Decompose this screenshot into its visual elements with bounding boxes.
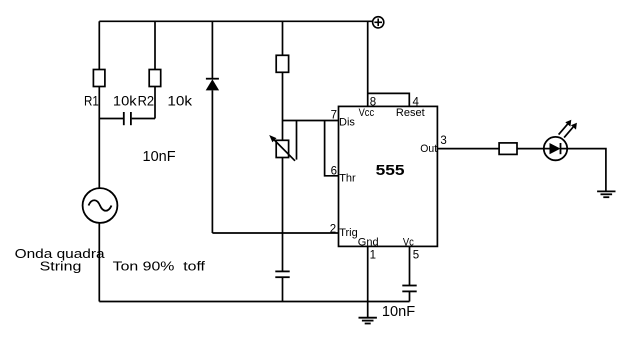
wire pin 4 Reset	[368, 93, 410, 106]
svg-text:5: 5	[413, 250, 419, 262]
wire thr net	[325, 121, 339, 176]
LED D2	[544, 137, 567, 160]
wire pin 3 Out	[437, 148, 499, 150]
svg-text:8: 8	[370, 96, 376, 108]
wire pot bottom	[282, 158, 284, 272]
svg-text:R1: R1	[84, 92, 99, 108]
wire pot wiper	[296, 121, 298, 160]
capacitor C3 10nF	[402, 286, 416, 302]
svg-text:String: String	[40, 260, 82, 274]
wire R2 bottom	[154, 87, 156, 119]
diode D1	[206, 79, 219, 91]
resistor R1	[93, 70, 105, 87]
resistor R2	[149, 70, 161, 87]
wire R4 top	[282, 21, 284, 55]
wire pin 8 Vcc	[367, 21, 369, 106]
wire R4 bottom	[282, 72, 284, 140]
svg-text:555: 555	[376, 162, 405, 179]
wire trig net	[212, 232, 338, 234]
svg-text:Out: Out	[420, 143, 437, 155]
voltage source V1	[83, 188, 118, 223]
power terminal +V	[373, 17, 384, 28]
svg-text:6: 6	[331, 166, 337, 178]
svg-text:Vcc: Vcc	[359, 107, 375, 119]
wire R1 top	[98, 21, 100, 69]
svg-text:1: 1	[370, 250, 376, 262]
svg-text:10nF: 10nF	[382, 304, 415, 320]
wire R5 to LED	[517, 148, 544, 150]
capacitor C1 10nF	[99, 112, 155, 125]
wire diode bottom	[211, 90, 213, 233]
svg-text:10nF: 10nF	[143, 149, 176, 165]
wire dis net	[283, 120, 339, 122]
wire diode top	[211, 21, 213, 78]
wire source bottom	[98, 223, 100, 302]
LED light arrow 1	[559, 120, 572, 135]
svg-text:Thr: Thr	[339, 173, 356, 185]
svg-text:Gnd: Gnd	[358, 236, 379, 248]
svg-text:Vc: Vc	[403, 236, 414, 248]
svg-text:10k: 10k	[167, 92, 193, 108]
svg-text:Reset: Reset	[396, 107, 425, 119]
svg-text:3: 3	[440, 135, 446, 147]
wire top rail	[99, 20, 372, 22]
wire R1 bottom	[98, 87, 100, 189]
resistor R4	[276, 55, 288, 72]
resistor R5	[499, 143, 517, 155]
wire bottom rail	[99, 301, 409, 303]
svg-text:Dis: Dis	[339, 117, 355, 129]
svg-text:7: 7	[331, 110, 337, 122]
potentiometer R3	[269, 135, 295, 161]
svg-text:Trig: Trig	[339, 227, 358, 239]
LED light arrow 2	[564, 123, 577, 138]
ground right	[597, 191, 615, 197]
svg-text:2: 2	[330, 224, 336, 236]
svg-text:4: 4	[413, 96, 420, 108]
wire LED to ground	[567, 149, 606, 192]
capacitor C2	[275, 271, 289, 301]
svg-text:R2: R2	[138, 92, 155, 108]
op-amp U1 555 IC body	[339, 106, 438, 246]
wire pin 5 Vc	[409, 246, 411, 285]
ground bottom	[359, 318, 377, 324]
svg-text:10k: 10k	[113, 92, 138, 108]
wire R2 top	[154, 21, 156, 69]
svg-text:Ton 90% toff: Ton 90% toff	[113, 260, 206, 274]
wire pin 1 Gnd	[367, 246, 369, 317]
